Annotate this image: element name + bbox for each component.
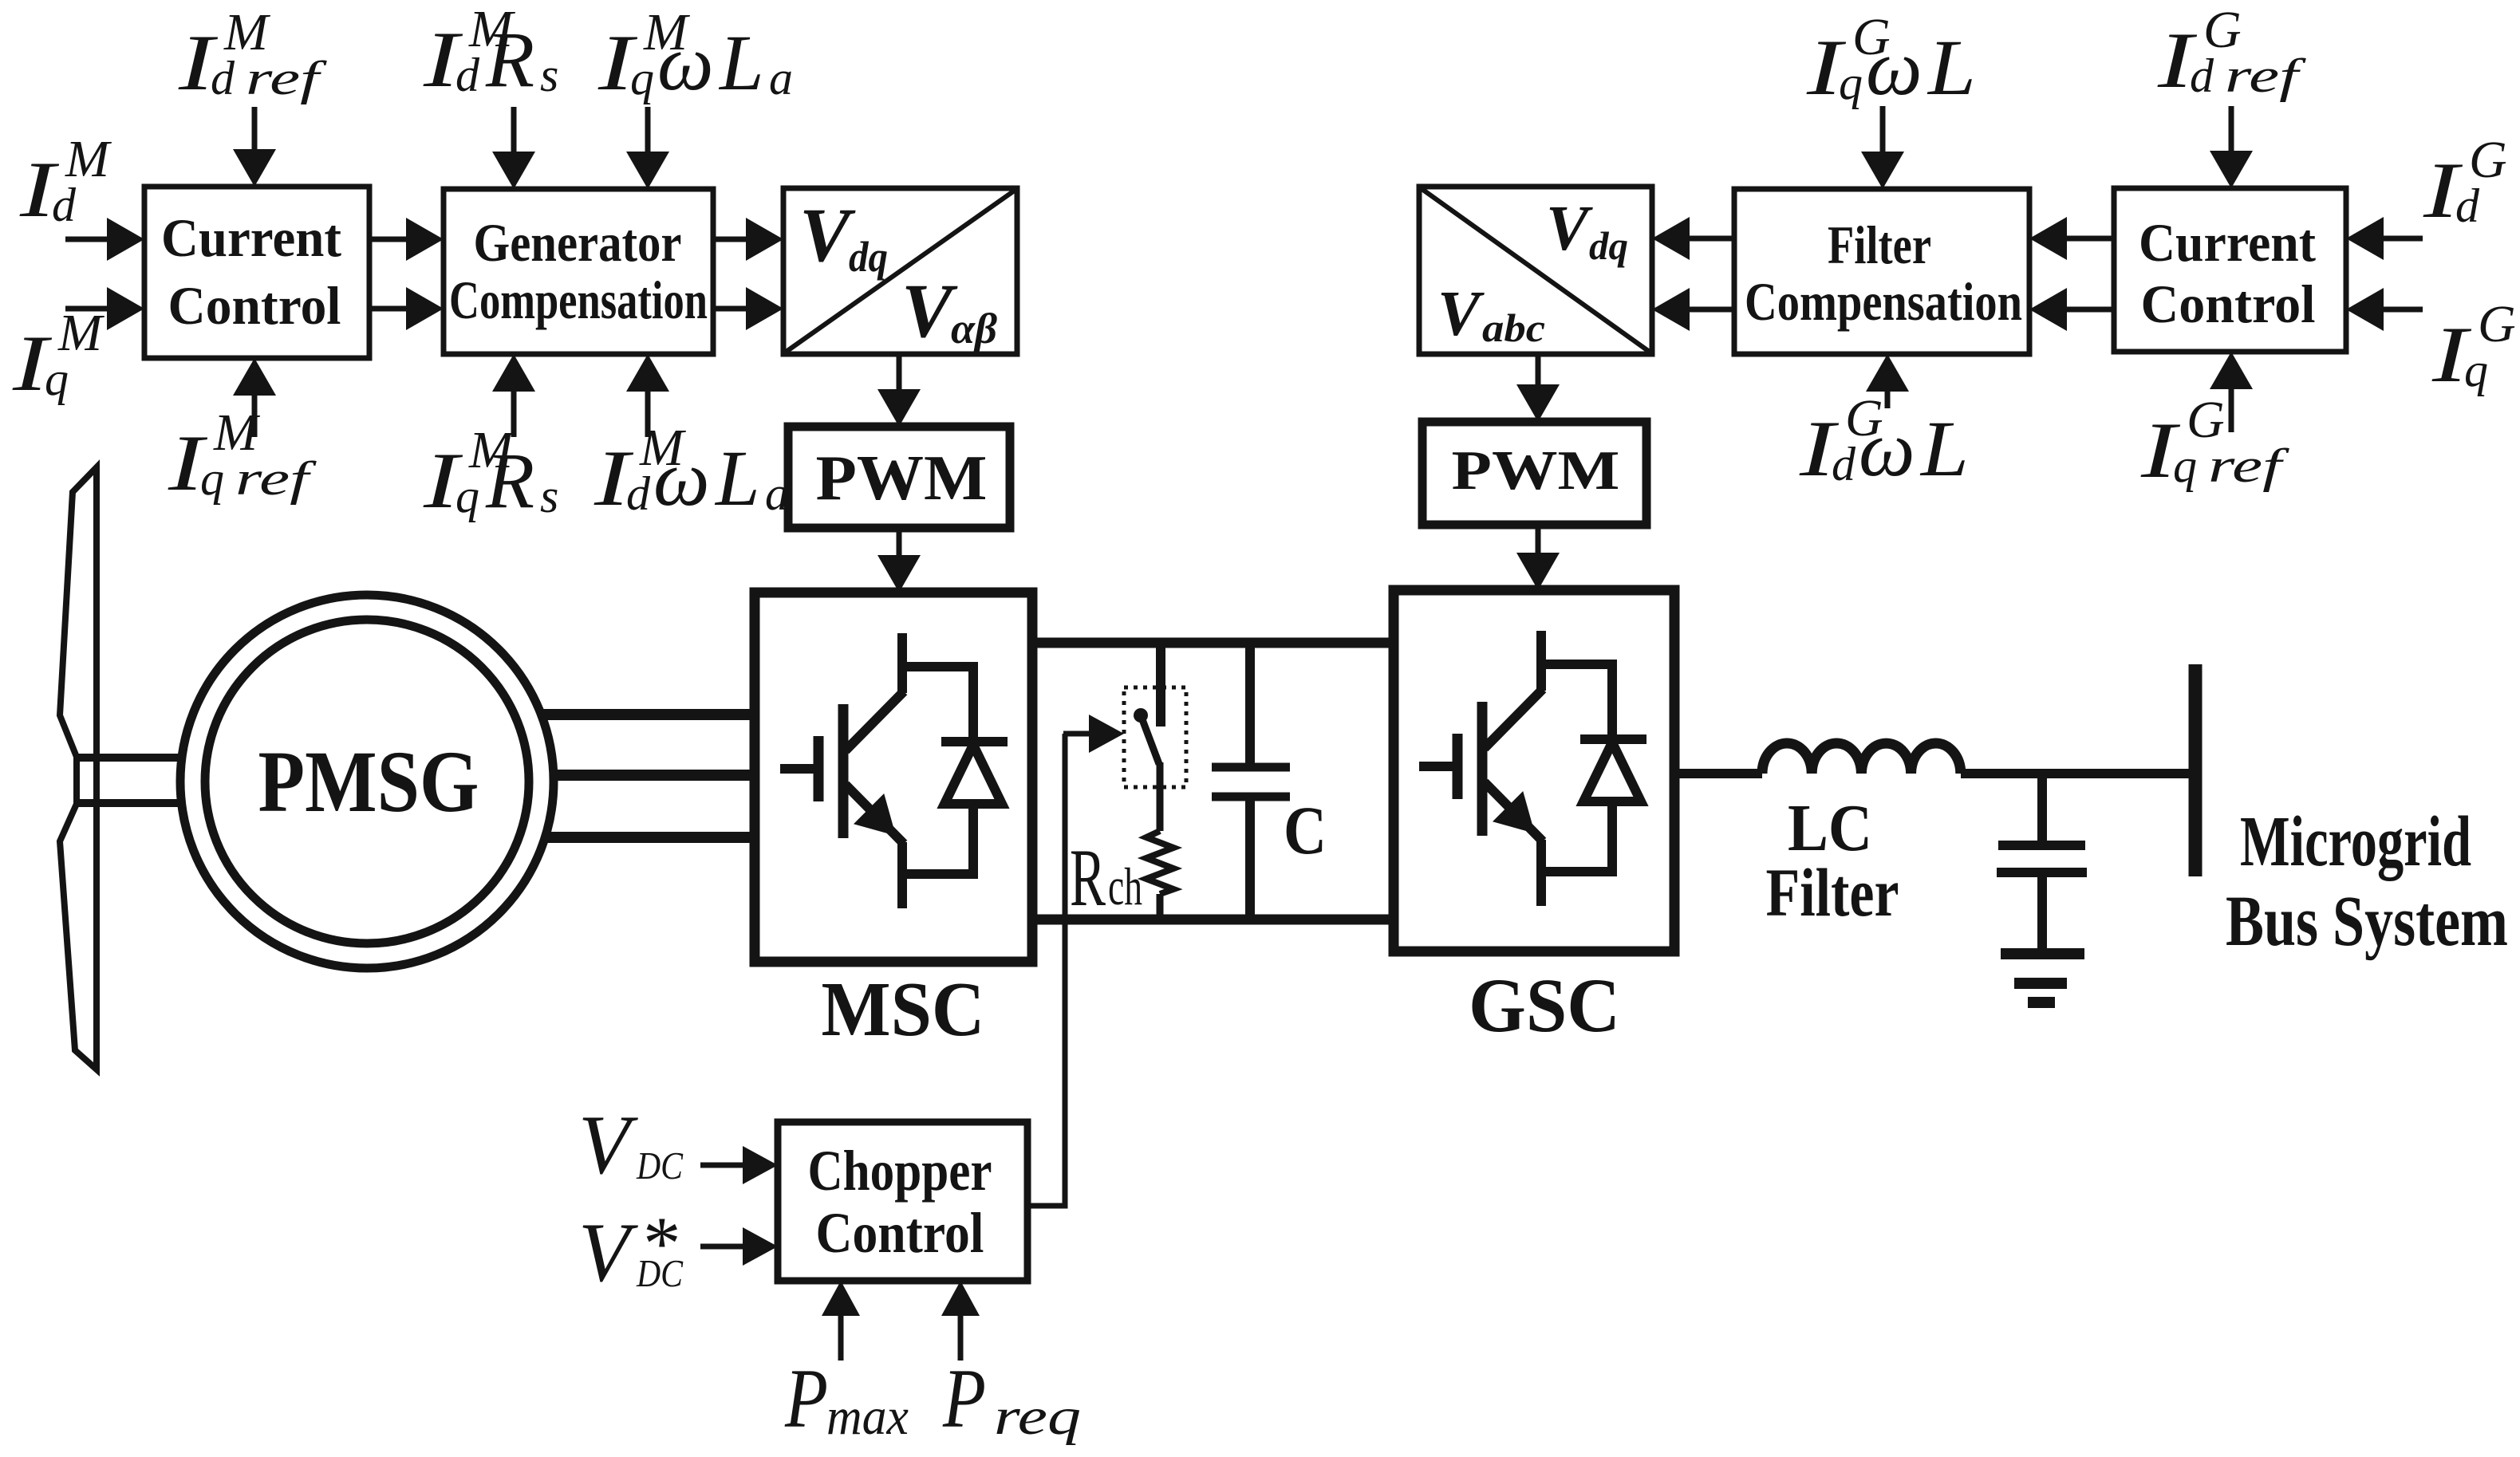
arrow Pmax into Chopper Control bottom xyxy=(838,1311,844,1361)
svg-text:s: s xyxy=(540,49,558,101)
block PWM (machine side) xyxy=(788,427,1010,528)
svg-text:d: d xyxy=(211,52,235,104)
svg-text:V: V xyxy=(578,1098,638,1191)
arrow Id_ref_M into Current Control top xyxy=(252,107,258,154)
svg-text:Control: Control xyxy=(2141,274,2316,334)
svg-text:L: L xyxy=(1919,404,1969,493)
svg-text:ω: ω xyxy=(1859,404,1915,493)
wind turbine blades xyxy=(60,467,97,1069)
inductor L of LC filter xyxy=(1762,743,1961,774)
diode triangle (GSC) xyxy=(1583,742,1641,801)
filter capacitor top lead xyxy=(2037,774,2047,845)
svg-text:ref: ref xyxy=(2208,439,2289,492)
diode cathode bar (MSC) xyxy=(941,737,1008,746)
DC-link capacitor bottom lead xyxy=(1245,797,1255,919)
arrow Generator Compensation to transform (d) xyxy=(713,237,751,242)
converter MSC box xyxy=(755,593,1032,962)
arrow Filter Compensation to dq/abc transform (q) xyxy=(1685,307,1734,313)
ground bar 3 xyxy=(2028,997,2055,1008)
diode anode lead (MSC) xyxy=(968,804,978,879)
diagonal of dq/abc transform xyxy=(1421,188,1650,352)
connector IGBT bottom to diode (MSC) xyxy=(902,869,973,879)
IGBT emitter diagonal with arrowhead (MSC) xyxy=(846,785,904,844)
svg-text:V: V xyxy=(901,268,958,353)
arrow VDC into Chopper Control xyxy=(700,1163,747,1168)
svg-text:Filter: Filter xyxy=(1766,854,1899,931)
three-phase line c PMSG to MSC xyxy=(544,832,755,843)
arrow Iq_ref_G into Current Control grid bottom xyxy=(2229,384,2234,432)
svg-text:Filter: Filter xyxy=(1828,215,1931,275)
svg-text:R: R xyxy=(485,15,534,104)
arrow Preq into Chopper Control bottom xyxy=(958,1311,964,1361)
arrow IqRs into Generator Compensation bottom xyxy=(511,387,517,437)
svg-text:Chopper: Chopper xyxy=(808,1139,992,1203)
svg-text:ω: ω xyxy=(653,434,710,522)
IGBT gate bar (GSC) xyxy=(1453,734,1463,799)
diode cathode lead (GSC) xyxy=(1607,660,1617,739)
IGBT collector diagonal (GSC) xyxy=(1485,689,1543,748)
DC-link capacitor top lead xyxy=(1245,643,1255,767)
svg-text:C: C xyxy=(1284,792,1327,868)
svg-text:d: d xyxy=(2455,179,2480,232)
converter GSC box xyxy=(1394,590,1674,951)
IGBT gate bar (MSC) xyxy=(814,736,824,801)
svg-text:V: V xyxy=(1437,279,1485,349)
svg-text:max: max xyxy=(826,1388,909,1446)
generator PMSG inner circle xyxy=(205,620,529,943)
block dq to abc transform xyxy=(1419,187,1652,354)
arrow IqwL_G into Filter Compensation top xyxy=(1880,106,1886,156)
IGBT emitter diagonal with arrowhead (GSC) xyxy=(1485,782,1543,841)
IGBT collector stub (GSC) xyxy=(1536,631,1546,691)
svg-text:ref: ref xyxy=(235,452,317,505)
wire chopper control to switch xyxy=(1027,734,1065,1206)
svg-text:DC: DC xyxy=(636,1144,684,1187)
resistor Rch zigzag xyxy=(1146,831,1173,894)
IGBT collector-emitter bar (GSC) xyxy=(1477,702,1488,836)
svg-text:d: d xyxy=(2190,49,2214,102)
arrow IdwL_G into Filter Compensation bottom xyxy=(1885,387,1891,408)
svg-text:q: q xyxy=(45,352,69,405)
svg-text:*: * xyxy=(643,1201,681,1286)
arrow Filter Compensation to dq/abc transform (d) xyxy=(1685,236,1734,242)
svg-text:Control: Control xyxy=(168,275,341,336)
svg-text:dq: dq xyxy=(1589,223,1628,268)
svg-text:αβ: αβ xyxy=(951,305,997,352)
arrow IdRs into Generator Compensation top xyxy=(511,107,517,156)
svg-text:q: q xyxy=(2173,439,2197,492)
svg-text:d: d xyxy=(626,467,651,520)
three-phase line b PMSG to MSC xyxy=(552,770,755,781)
arrow Current Control to Filter Compensation (d) xyxy=(2062,236,2114,242)
svg-text:L: L xyxy=(714,434,760,522)
svg-text:a: a xyxy=(765,467,789,520)
arrow VDC-ref into Chopper Control xyxy=(700,1244,747,1250)
svg-text:R: R xyxy=(1070,833,1106,923)
svg-text:P: P xyxy=(784,1352,828,1445)
filter capacitor top plate xyxy=(1998,841,2085,850)
svg-text:V: V xyxy=(578,1206,638,1299)
svg-text:a: a xyxy=(769,52,793,104)
resistor Rch bottom lead xyxy=(1157,894,1164,919)
filter capacitor bottom lead xyxy=(2037,872,2047,954)
diagonal of dq/alpha-beta transform xyxy=(785,190,1015,352)
block dq to alpha-beta transform xyxy=(783,188,1017,354)
svg-text:ref: ref xyxy=(2225,49,2306,102)
IGBT gate lead (GSC) xyxy=(1419,762,1457,771)
svg-text:L: L xyxy=(1926,23,1976,112)
svg-text:R: R xyxy=(485,436,534,525)
chopper top lead xyxy=(1156,643,1165,727)
svg-text:q: q xyxy=(200,452,224,505)
generator PMSG outer circle xyxy=(180,595,554,968)
svg-text:s: s xyxy=(540,470,558,522)
svg-text:q: q xyxy=(2464,344,2488,396)
svg-text:Compensation: Compensation xyxy=(1745,271,2022,332)
svg-text:d: d xyxy=(52,179,77,231)
arrow Iq_ref_M into Current Control bottom xyxy=(252,391,258,437)
svg-text:abc: abc xyxy=(1482,305,1545,350)
arrow Iq_M input into Current Control xyxy=(65,306,112,312)
three-phase line a PMSG to MSC xyxy=(539,709,755,720)
arrow Iq_G input into Current Control grid xyxy=(2379,307,2423,313)
block Current Control (machine side) xyxy=(144,187,369,358)
connector IGBT bottom to diode (GSC) xyxy=(1541,867,1612,876)
arrow dq/abc transform to PWM grid xyxy=(1536,354,1541,389)
diode cathode lead (MSC) xyxy=(968,662,978,742)
arrow Current Control to Filter Compensation (q) xyxy=(2062,307,2114,313)
svg-text:V: V xyxy=(799,192,856,278)
block Filter Compensation xyxy=(1734,189,2029,354)
arrow PWM to GSC xyxy=(1536,525,1541,557)
svg-text:q: q xyxy=(1839,57,1863,109)
connector IGBT top to diode (MSC) xyxy=(902,662,973,671)
DC-link capacitor top plate xyxy=(1212,763,1290,772)
DC bus top rail xyxy=(1032,638,1394,648)
IGBT gate lead (MSC) xyxy=(780,764,818,774)
diode cathode bar (GSC) xyxy=(1580,734,1646,744)
chopper switch blade xyxy=(1141,715,1159,764)
IGBT collector-emitter bar (MSC) xyxy=(838,704,849,838)
svg-text:ω: ω xyxy=(657,18,714,107)
svg-text:d: d xyxy=(1832,438,1856,490)
arrow IqwLa into Generator Compensation top xyxy=(645,107,651,156)
IGBT emitter stub (GSC) xyxy=(1536,840,1546,906)
diode anode lead (GSC) xyxy=(1607,801,1617,876)
chopper switch contact dot xyxy=(1134,708,1148,723)
svg-text:PMSG: PMSG xyxy=(258,733,479,830)
block Chopper Control xyxy=(778,1122,1027,1281)
svg-text:P: P xyxy=(942,1352,986,1445)
svg-text:Generator: Generator xyxy=(474,212,682,273)
turbine hub shaft bottom xyxy=(77,799,182,807)
svg-text:Current: Current xyxy=(2139,212,2316,273)
svg-text:ω: ω xyxy=(1866,23,1923,112)
chopper switch dotted enclosure xyxy=(1124,687,1186,787)
svg-text:V: V xyxy=(1546,194,1593,264)
svg-text:GSC: GSC xyxy=(1469,963,1620,1048)
arrow IdwLa into Generator Compensation bottom xyxy=(645,387,651,437)
microgrid bus bar xyxy=(2189,664,2203,876)
IGBT emitter stub (MSC) xyxy=(897,842,907,908)
arrow PWM to MSC xyxy=(897,528,902,560)
connector IGBT top to diode (GSC) xyxy=(1541,660,1612,669)
chopper mid lead xyxy=(1157,762,1164,831)
svg-text:Microgrid: Microgrid xyxy=(2240,802,2471,881)
block Generator Compensation xyxy=(444,189,713,354)
svg-text:PWM: PWM xyxy=(816,442,988,514)
ground bar 2 xyxy=(2014,978,2067,989)
svg-text:Bus System: Bus System xyxy=(2226,882,2508,961)
arrow Id_M input into Current Control xyxy=(65,237,112,242)
svg-text:Compensation: Compensation xyxy=(449,270,708,330)
wire GSC output to filter inductor xyxy=(1674,769,1762,778)
svg-text:L: L xyxy=(718,18,764,107)
IGBT collector stub (MSC) xyxy=(897,633,907,693)
arrow chopper gate signal into switch xyxy=(1063,731,1094,737)
svg-text:PWM: PWM xyxy=(1452,440,1620,502)
svg-text:q: q xyxy=(630,52,654,104)
block Current Control (grid side) xyxy=(2114,188,2346,352)
arrow Id_G input into Current Control grid xyxy=(2379,236,2423,242)
block PWM (grid side) xyxy=(1422,422,1646,525)
DC-link capacitor bottom plate xyxy=(1212,793,1290,801)
svg-text:dq: dq xyxy=(849,233,888,281)
arrow Current Control to Generator Compensation (d) xyxy=(369,237,411,242)
svg-text:d: d xyxy=(455,49,480,101)
svg-text:q: q xyxy=(455,470,479,522)
svg-text:ch: ch xyxy=(1108,857,1142,916)
svg-text:Control: Control xyxy=(816,1201,984,1265)
arrow Current Control to Generator Compensation (q) xyxy=(369,306,411,312)
arrow Generator Compensation to transform (q) xyxy=(713,306,751,312)
ground bar 1 xyxy=(2001,948,2084,959)
arrow transform to PWM xyxy=(897,354,902,394)
wire inductor to microgrid bus xyxy=(1961,769,2189,778)
svg-text:ref: ref xyxy=(246,52,327,104)
turbine hub shaft top xyxy=(77,754,182,762)
svg-text:req: req xyxy=(994,1388,1081,1446)
DC bus bottom rail xyxy=(1032,915,1394,925)
filter capacitor bottom plate xyxy=(1997,868,2087,877)
svg-text:MSC: MSC xyxy=(822,967,985,1052)
diode triangle (MSC) xyxy=(945,745,1002,804)
IGBT collector diagonal (MSC) xyxy=(846,691,904,750)
svg-text:Current: Current xyxy=(161,207,341,268)
arrow Id_ref_G into Current Control grid top xyxy=(2229,106,2234,156)
